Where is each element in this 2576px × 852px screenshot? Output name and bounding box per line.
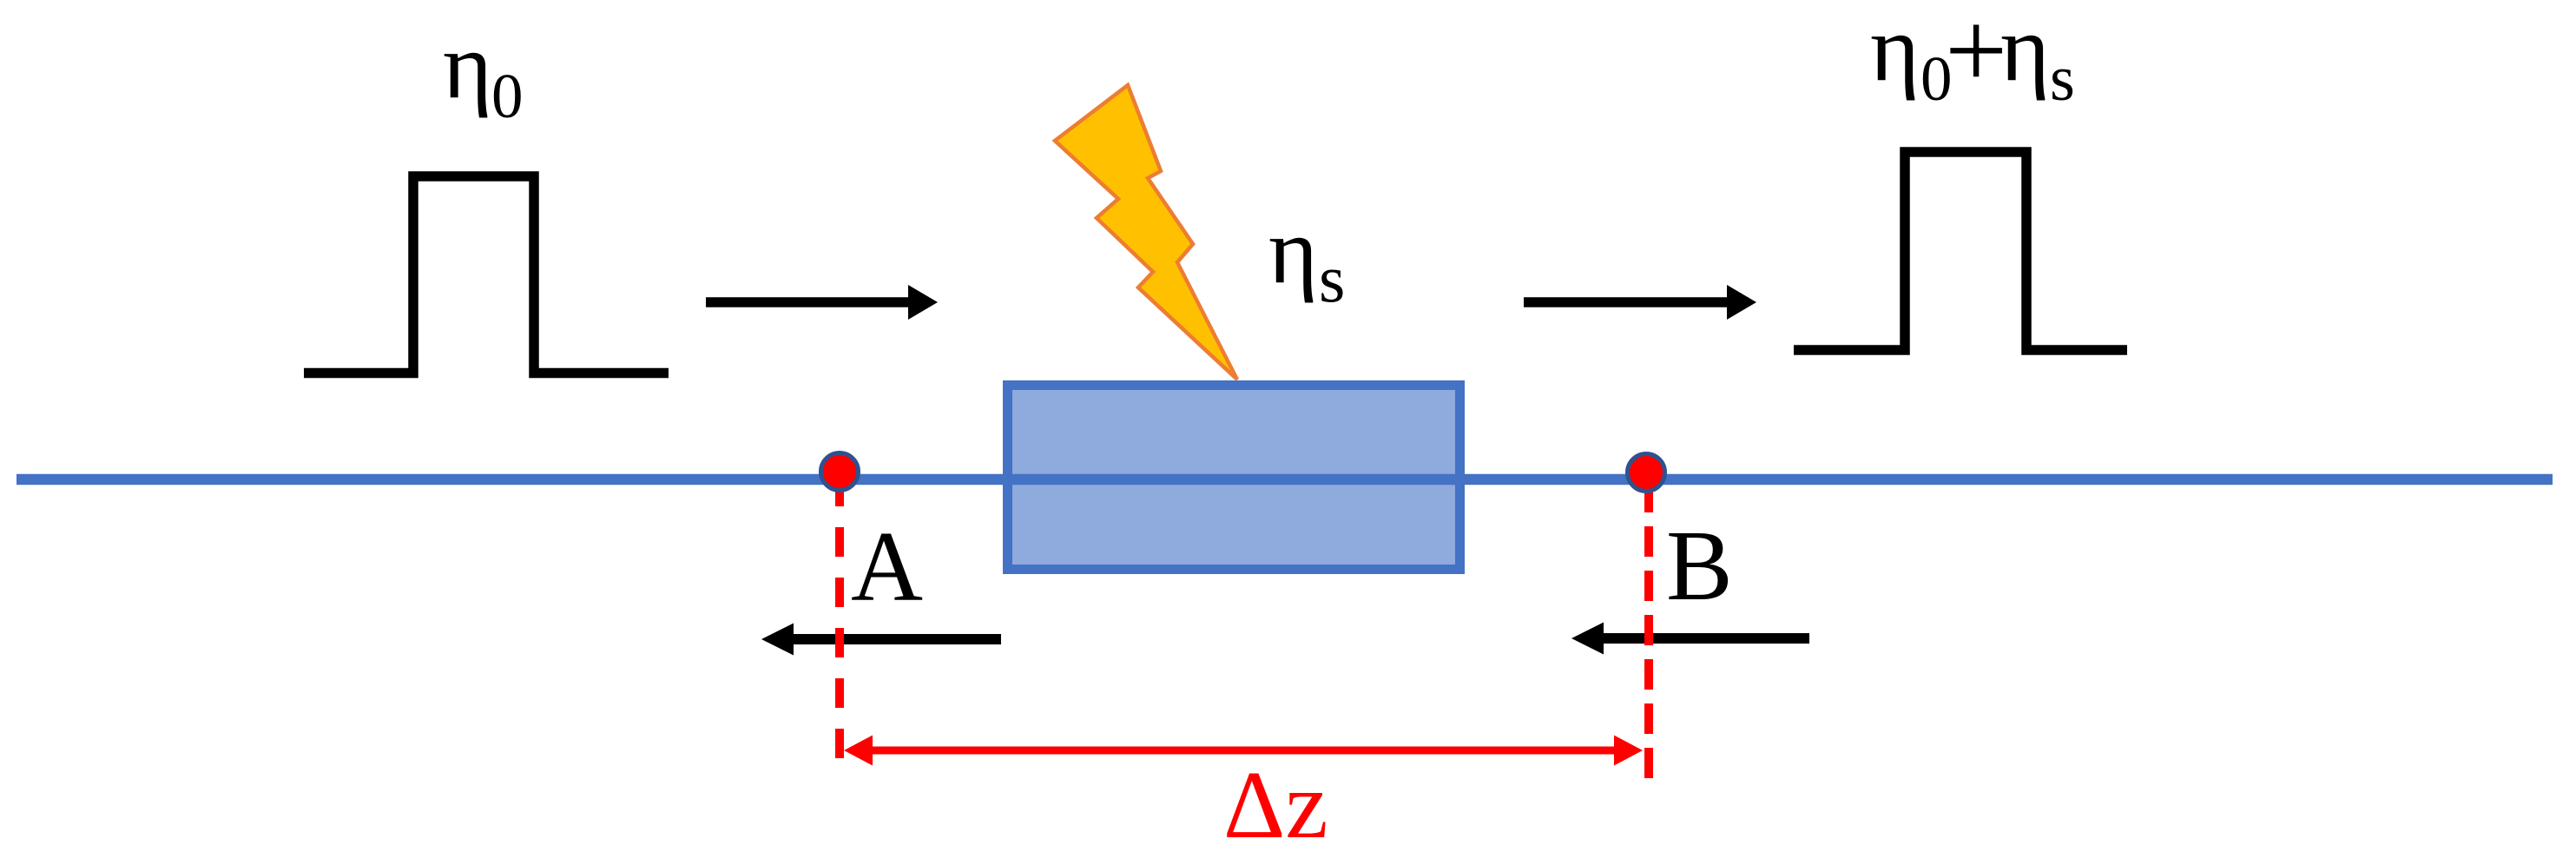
svg-text:B: B [1666,511,1733,621]
forward arrow 1 [706,297,911,307]
dashed line B [1644,482,1653,778]
dashed line A [835,477,844,761]
forward arrow 2 [1524,297,1729,307]
backscatter arrow A [791,634,1001,644]
svg-text:η0+ηs: η0+ηs [1870,0,2075,115]
svg-text:A: A [851,512,923,622]
input pulse eta0 waveform [304,176,669,373]
scattering section box (fiber segment) [1008,386,1460,570]
output pulse eta0+etas waveform [1794,152,2127,350]
node A dot [821,453,859,491]
lightning bolt (scattering event) [1055,85,1237,380]
delta-z double arrow [870,747,1617,755]
backscatter arrow B [1600,633,1809,644]
svg-text:Δz: Δz [1223,752,1328,852]
fiber line [16,474,2553,485]
node B dot [1628,454,1665,492]
